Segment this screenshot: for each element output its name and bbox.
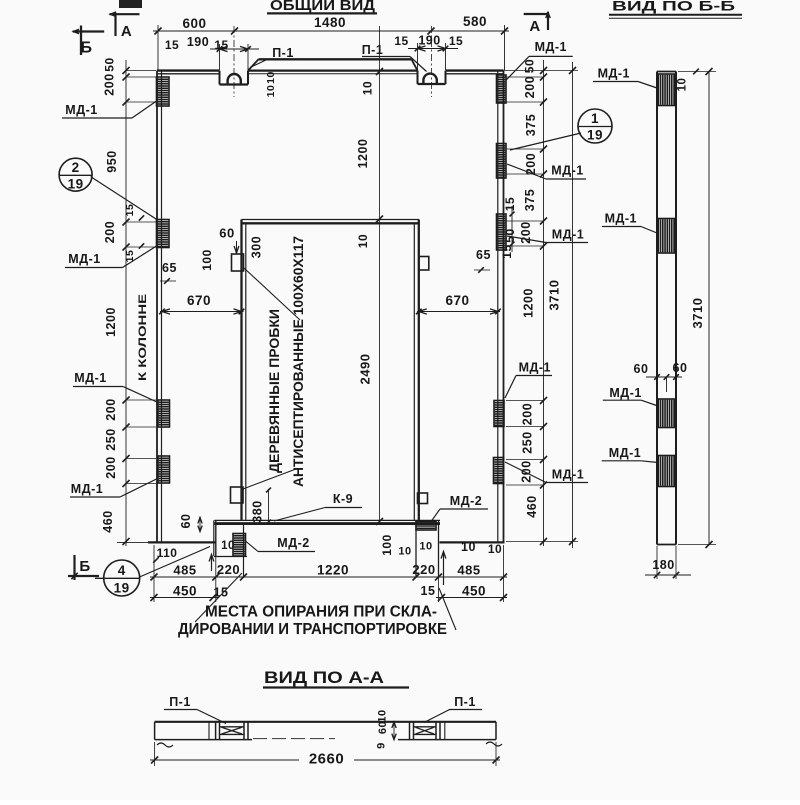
svg-text:950: 950	[105, 150, 119, 172]
block MD-1 L2	[157, 220, 170, 248]
A-A bar top edge	[155, 721, 496, 723]
svg-text:ДЕРЕВЯННЫЕ ПРОБКИ: ДЕРЕВЯННЫЕ ПРОБКИ	[267, 309, 282, 473]
svg-text:250: 250	[521, 431, 535, 453]
leader from tab LT to note	[244, 268, 300, 320]
svg-text:15: 15	[500, 244, 514, 258]
panel bottom face right	[440, 541, 505, 543]
svg-text:МД-1: МД-1	[535, 40, 567, 54]
outer chain 3710 right	[572, 62, 574, 548]
svg-text:2: 2	[72, 160, 80, 175]
svg-text:15: 15	[165, 38, 179, 52]
right dim chain line	[543, 60, 545, 546]
rib slant left	[248, 59, 259, 70]
svg-text:375: 375	[524, 114, 538, 136]
svg-text:300: 300	[250, 236, 264, 258]
main vertical centerline	[379, 26, 381, 522]
block MD-1 L1	[157, 77, 170, 106]
svg-text:250: 250	[104, 428, 118, 450]
svg-text:200: 200	[523, 76, 537, 98]
svg-text:МД-1: МД-1	[609, 446, 641, 460]
note leader left	[195, 573, 242, 622]
bottom dim row2	[150, 597, 219, 599]
svg-text:ВИД ПО Б-Б: ВИД ПО Б-Б	[612, 0, 735, 14]
leader from tab LB to note	[243, 469, 296, 489]
block MD-1 R4	[494, 401, 504, 427]
svg-text:10: 10	[221, 540, 235, 552]
marker circle 1/19	[578, 109, 612, 143]
right sub-chain 15-50-15	[511, 206, 513, 252]
svg-text:50: 50	[503, 228, 517, 242]
svg-text:60: 60	[634, 362, 649, 376]
svg-text:10: 10	[265, 85, 277, 98]
svg-text:15: 15	[449, 34, 463, 48]
inner rect left edge	[240, 220, 242, 522]
panel top edge left segment	[157, 69, 220, 71]
svg-text:МД-1: МД-1	[551, 164, 583, 178]
A-A loop2 assembly	[409, 722, 411, 740]
note leader right	[439, 588, 456, 630]
svg-text:2490: 2490	[358, 354, 373, 385]
svg-text:60: 60	[673, 361, 688, 375]
block MD-1 R3	[497, 214, 507, 250]
block MD-1 B4	[658, 456, 675, 487]
svg-text:Б: Б	[79, 558, 90, 575]
lifting loop arch left	[228, 74, 241, 85]
svg-text:110: 110	[157, 546, 178, 560]
svg-text:9: 9	[376, 742, 388, 749]
svg-text:П-1: П-1	[454, 695, 476, 709]
svg-text:МД-1: МД-1	[519, 361, 551, 375]
block MD-1 B3	[658, 399, 675, 428]
svg-text:Б: Б	[81, 40, 93, 57]
svg-text:460: 460	[101, 510, 115, 532]
svg-text:19: 19	[68, 177, 84, 192]
svg-text:ВИД ПО А-А: ВИД ПО А-А	[264, 668, 384, 687]
A-A bar left end	[154, 722, 156, 740]
block MD-1 L4	[158, 456, 170, 483]
panel right edge	[497, 71, 499, 543]
support right arrow	[443, 553, 445, 586]
svg-text:А: А	[529, 18, 540, 35]
dim 180 B-B bottom	[645, 574, 691, 576]
section mark B top-left	[73, 30, 105, 32]
lifting loop arch right	[423, 74, 436, 84]
svg-text:МД-1: МД-1	[552, 228, 584, 242]
svg-text:220: 220	[412, 562, 435, 577]
svg-text:580: 580	[463, 14, 487, 29]
svg-text:485: 485	[457, 563, 480, 578]
svg-text:МД-1: МД-1	[65, 103, 97, 117]
svg-text:МД-2: МД-2	[450, 494, 482, 508]
svg-text:65: 65	[476, 248, 491, 262]
svg-text:190: 190	[418, 34, 440, 48]
bottom dim extension lines	[153, 545, 155, 602]
panel left edge	[156, 71, 158, 543]
svg-text:1220: 1220	[317, 563, 349, 578]
svg-text:10: 10	[356, 234, 370, 248]
inner rect top edge	[242, 219, 420, 221]
svg-text:15: 15	[214, 38, 228, 52]
svg-text:10: 10	[461, 540, 476, 554]
svg-text:200: 200	[103, 221, 117, 243]
svg-text:1480: 1480	[314, 15, 346, 30]
svg-text:А: А	[121, 23, 132, 40]
svg-text:10: 10	[419, 541, 432, 553]
panel face line mid segment	[248, 69, 418, 71]
dim 3710 B-B	[708, 72, 710, 545]
section mark A top-left	[110, 13, 140, 15]
A-A bar bottom edge right	[398, 739, 496, 741]
svg-text:100: 100	[200, 249, 214, 271]
svg-text:60: 60	[179, 514, 193, 529]
svg-text:200: 200	[104, 456, 118, 478]
svg-text:200: 200	[520, 460, 534, 482]
block MD-1 R2	[497, 144, 507, 179]
svg-text:1200: 1200	[522, 288, 536, 318]
svg-text:19: 19	[114, 581, 130, 596]
svg-text:АНТИСЕПТИРОВАННЫЕ 100Х60Х117: АНТИСЕПТИРОВАННЫЕ 100Х60Х117	[291, 236, 306, 487]
dim 2660	[150, 759, 299, 761]
svg-text:1200: 1200	[356, 139, 370, 169]
bottom dim row1	[150, 576, 507, 578]
right chain extension lines	[506, 76, 544, 78]
svg-text:65: 65	[162, 261, 177, 275]
bottom rail K-9	[215, 519, 441, 521]
svg-text:450: 450	[462, 584, 486, 599]
block MD-1 L3	[158, 400, 170, 427]
svg-text:450: 450	[173, 584, 197, 599]
svg-text:10: 10	[398, 546, 411, 558]
svg-text:П-1: П-1	[362, 43, 384, 57]
A-A bar right end	[495, 722, 497, 740]
loop2 sub-dim 15 190 15	[408, 48, 458, 50]
A-A bar bottom edge left	[155, 739, 252, 741]
svg-text:19: 19	[587, 128, 603, 143]
svg-text:2660: 2660	[309, 751, 344, 768]
B-B strip outline	[656, 72, 658, 545]
wooden plug tab LB	[231, 487, 244, 503]
loop2 centerline	[431, 26, 433, 97]
svg-text:180: 180	[652, 558, 674, 572]
block MD-1 B1	[658, 74, 675, 106]
svg-text:10: 10	[488, 542, 502, 556]
wooden plug tab LT	[232, 254, 244, 271]
svg-text:4: 4	[118, 563, 126, 578]
svg-text:П-1: П-1	[169, 695, 191, 709]
svg-text:МД-1: МД-1	[609, 386, 641, 400]
support left outline	[213, 520, 215, 556]
support right outline	[415, 521, 417, 578]
inner rect right edge	[413, 223, 415, 521]
svg-text:МД-1: МД-1	[598, 67, 630, 81]
svg-text:15: 15	[394, 34, 408, 48]
A-A bar bottom dashes middle	[253, 738, 335, 740]
svg-text:380: 380	[251, 500, 265, 522]
dim 670 right	[417, 311, 500, 313]
svg-text:МД-1: МД-1	[71, 482, 103, 496]
svg-text:1200: 1200	[104, 307, 118, 337]
left dim chain line	[125, 60, 127, 546]
extension line left end	[157, 25, 159, 71]
svg-text:200: 200	[104, 398, 118, 420]
svg-text:К-9: К-9	[333, 492, 353, 506]
svg-text:15: 15	[124, 204, 136, 217]
svg-text:10: 10	[265, 71, 277, 84]
scan artifact top-left	[119, 0, 142, 8]
left chain extension lines	[126, 70, 156, 72]
top rib between loops	[259, 58, 412, 60]
marker circle 4/19	[104, 560, 140, 596]
section mark A top-right	[524, 13, 549, 15]
section mark B bottom-left	[68, 575, 99, 577]
block MD-1 B2	[658, 219, 675, 254]
svg-text:220: 220	[217, 562, 240, 577]
block MD-2 right support pad	[416, 522, 436, 531]
marker circle 2/19	[59, 158, 92, 191]
svg-text:15: 15	[421, 584, 436, 598]
dim 670 left	[160, 311, 244, 313]
svg-text:3710: 3710	[547, 280, 562, 311]
svg-text:190: 190	[187, 35, 209, 49]
wooden plug tab RT	[419, 257, 429, 271]
svg-text:МД-2: МД-2	[277, 536, 309, 550]
svg-text:МЕСТА ОПИРАНИЯ ПРИ СКЛА-: МЕСТА ОПИРАНИЯ ПРИ СКЛА-	[205, 604, 437, 621]
svg-text:670: 670	[187, 293, 211, 308]
svg-text:10: 10	[361, 81, 375, 95]
svg-text:3710: 3710	[690, 298, 705, 329]
extension line right end	[504, 25, 506, 71]
panel bottom face left	[148, 541, 216, 543]
svg-text:375: 375	[523, 189, 537, 211]
svg-text:МД-1: МД-1	[605, 212, 637, 226]
A-A loop1 assembly	[208, 722, 210, 740]
loop1 centerline	[233, 26, 235, 97]
svg-text:10: 10	[377, 709, 389, 722]
lifting pocket P-1 left	[219, 71, 221, 85]
loop1 sub-dim 15 190 15	[210, 48, 259, 50]
svg-text:100: 100	[380, 534, 394, 556]
block MD-2 left support	[233, 534, 246, 557]
support left arrow	[211, 556, 213, 572]
svg-text:ДИРОВАНИИ И ТРАНСПОРТИРОВКЕ: ДИРОВАНИИ И ТРАНСПОРТИРОВКЕ	[178, 621, 447, 638]
svg-text:К КОЛОННЕ: К КОЛОННЕ	[137, 294, 149, 381]
svg-text:1: 1	[591, 111, 599, 126]
svg-text:15: 15	[503, 197, 517, 211]
svg-text:200: 200	[521, 403, 535, 425]
A-A break mark right	[486, 742, 502, 746]
svg-text:10: 10	[677, 78, 689, 92]
lifting pocket P-1 right	[417, 71, 419, 84]
svg-text:МД-1: МД-1	[74, 371, 106, 385]
svg-text:МД-1: МД-1	[68, 252, 100, 266]
top dim line 600-1480-580	[153, 30, 509, 32]
svg-text:МД-1: МД-1	[552, 468, 584, 482]
svg-text:485: 485	[173, 563, 196, 578]
block MD-1 R1	[497, 75, 507, 103]
svg-text:50: 50	[103, 57, 117, 71]
A-A break mark left	[157, 743, 173, 747]
svg-text:600: 600	[182, 16, 206, 31]
svg-text:460: 460	[525, 495, 539, 517]
block MD-1 R5	[494, 458, 504, 484]
svg-text:П-1: П-1	[272, 46, 294, 60]
svg-text:200: 200	[103, 73, 117, 95]
svg-text:60: 60	[377, 721, 389, 734]
svg-text:ОБЩИЙ ВИД: ОБЩИЙ ВИД	[270, 0, 376, 14]
svg-text:670: 670	[445, 293, 469, 308]
svg-text:60: 60	[219, 226, 234, 241]
rib slant right	[412, 59, 418, 70]
wooden plug tab RB	[418, 493, 428, 504]
panel top edge right segment	[446, 69, 504, 71]
